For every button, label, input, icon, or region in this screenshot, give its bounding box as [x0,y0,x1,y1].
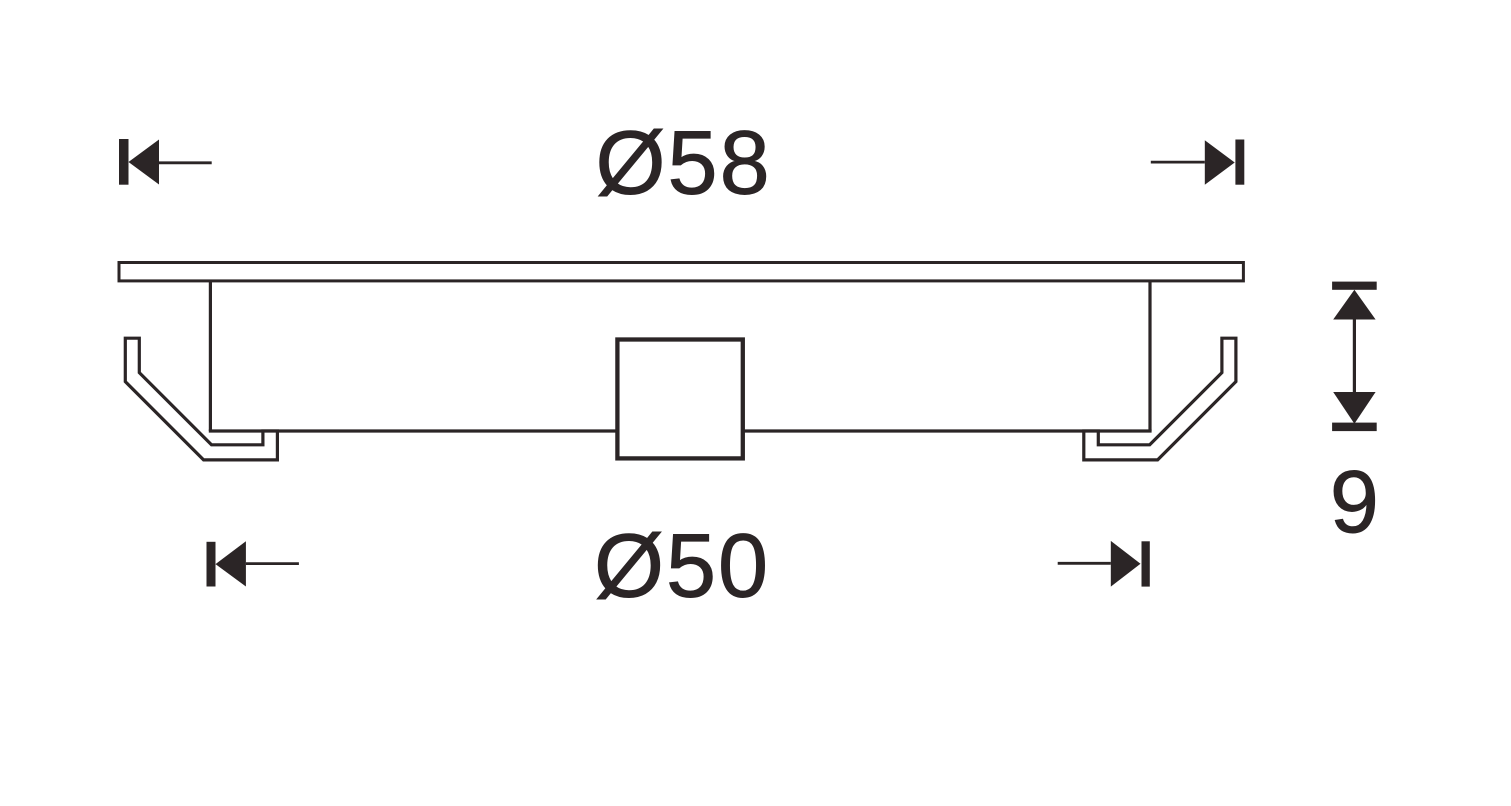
right spring clip [1084,338,1236,460]
svg-text:Ø50: Ø50 [594,517,770,617]
svg-text:9: 9 [1330,452,1379,551]
label Ø58 [596,114,772,214]
label 9 [1330,452,1379,551]
label Ø50 [594,517,770,617]
flange (trim ring top plate) [119,263,1243,281]
dimension Ø58 right terminator (line + arrowhead + bar) [1151,140,1245,185]
junction box (center square) [617,340,742,459]
dimension 9 bottom bound bar [1332,423,1377,432]
dimension Ø50 right terminator (line + arrowhead + bar) [1058,541,1150,587]
body right edge wire [1148,282,1151,431]
body (housing can) left edge wire [209,282,212,431]
dimension 9 down arrowhead [1333,392,1375,424]
svg-text:Ø58: Ø58 [596,114,772,214]
dimension Ø50 left terminator (bar + arrowhead + line) [207,541,299,586]
dimension 9 up arrowhead [1333,290,1375,320]
dimension 9 shaft wire [1353,320,1356,394]
dimension 9 top bound bar [1332,282,1377,290]
body bottom edge wire [209,429,1152,432]
left spring clip [125,338,277,460]
dimension Ø58 left terminator (bar + arrowhead + line) [119,139,212,185]
